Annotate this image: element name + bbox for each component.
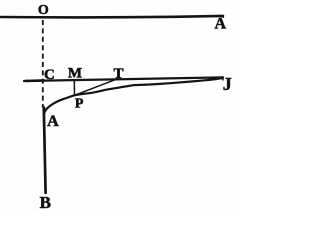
- svg-text:C: C: [44, 67, 55, 83]
- speck left of axis: [25, 80, 28, 82]
- label J: [223, 74, 232, 94]
- line A B (vertical): [44, 108, 46, 193]
- tangent P T: [75, 79, 118, 96]
- curve B A P J (tractrix): [44, 78, 223, 114]
- label O: [38, 3, 49, 18]
- svg-text:M: M: [68, 65, 82, 81]
- label A (at cusp): [47, 113, 59, 130]
- label C: [44, 67, 55, 83]
- svg-text:P: P: [75, 97, 84, 112]
- svg-text:A: A: [47, 113, 59, 130]
- dashed line O to C (vertical): [42, 20, 44, 108]
- ordinate M P (vertical): [73, 80, 75, 95]
- svg-text:O: O: [38, 3, 49, 18]
- label M: [68, 65, 82, 81]
- svg-text:B: B: [40, 193, 51, 210]
- label A (top right): [215, 15, 227, 32]
- label P: [75, 97, 84, 112]
- svg-text:A: A: [215, 15, 227, 32]
- svg-text:J: J: [223, 74, 232, 94]
- knot at cusp A: [43, 108, 46, 113]
- line OA (top horizontal): [1, 16, 223, 18]
- label T: [113, 66, 123, 82]
- axis line C M T J (asymptote): [24, 77, 223, 81]
- label B: [40, 193, 51, 212]
